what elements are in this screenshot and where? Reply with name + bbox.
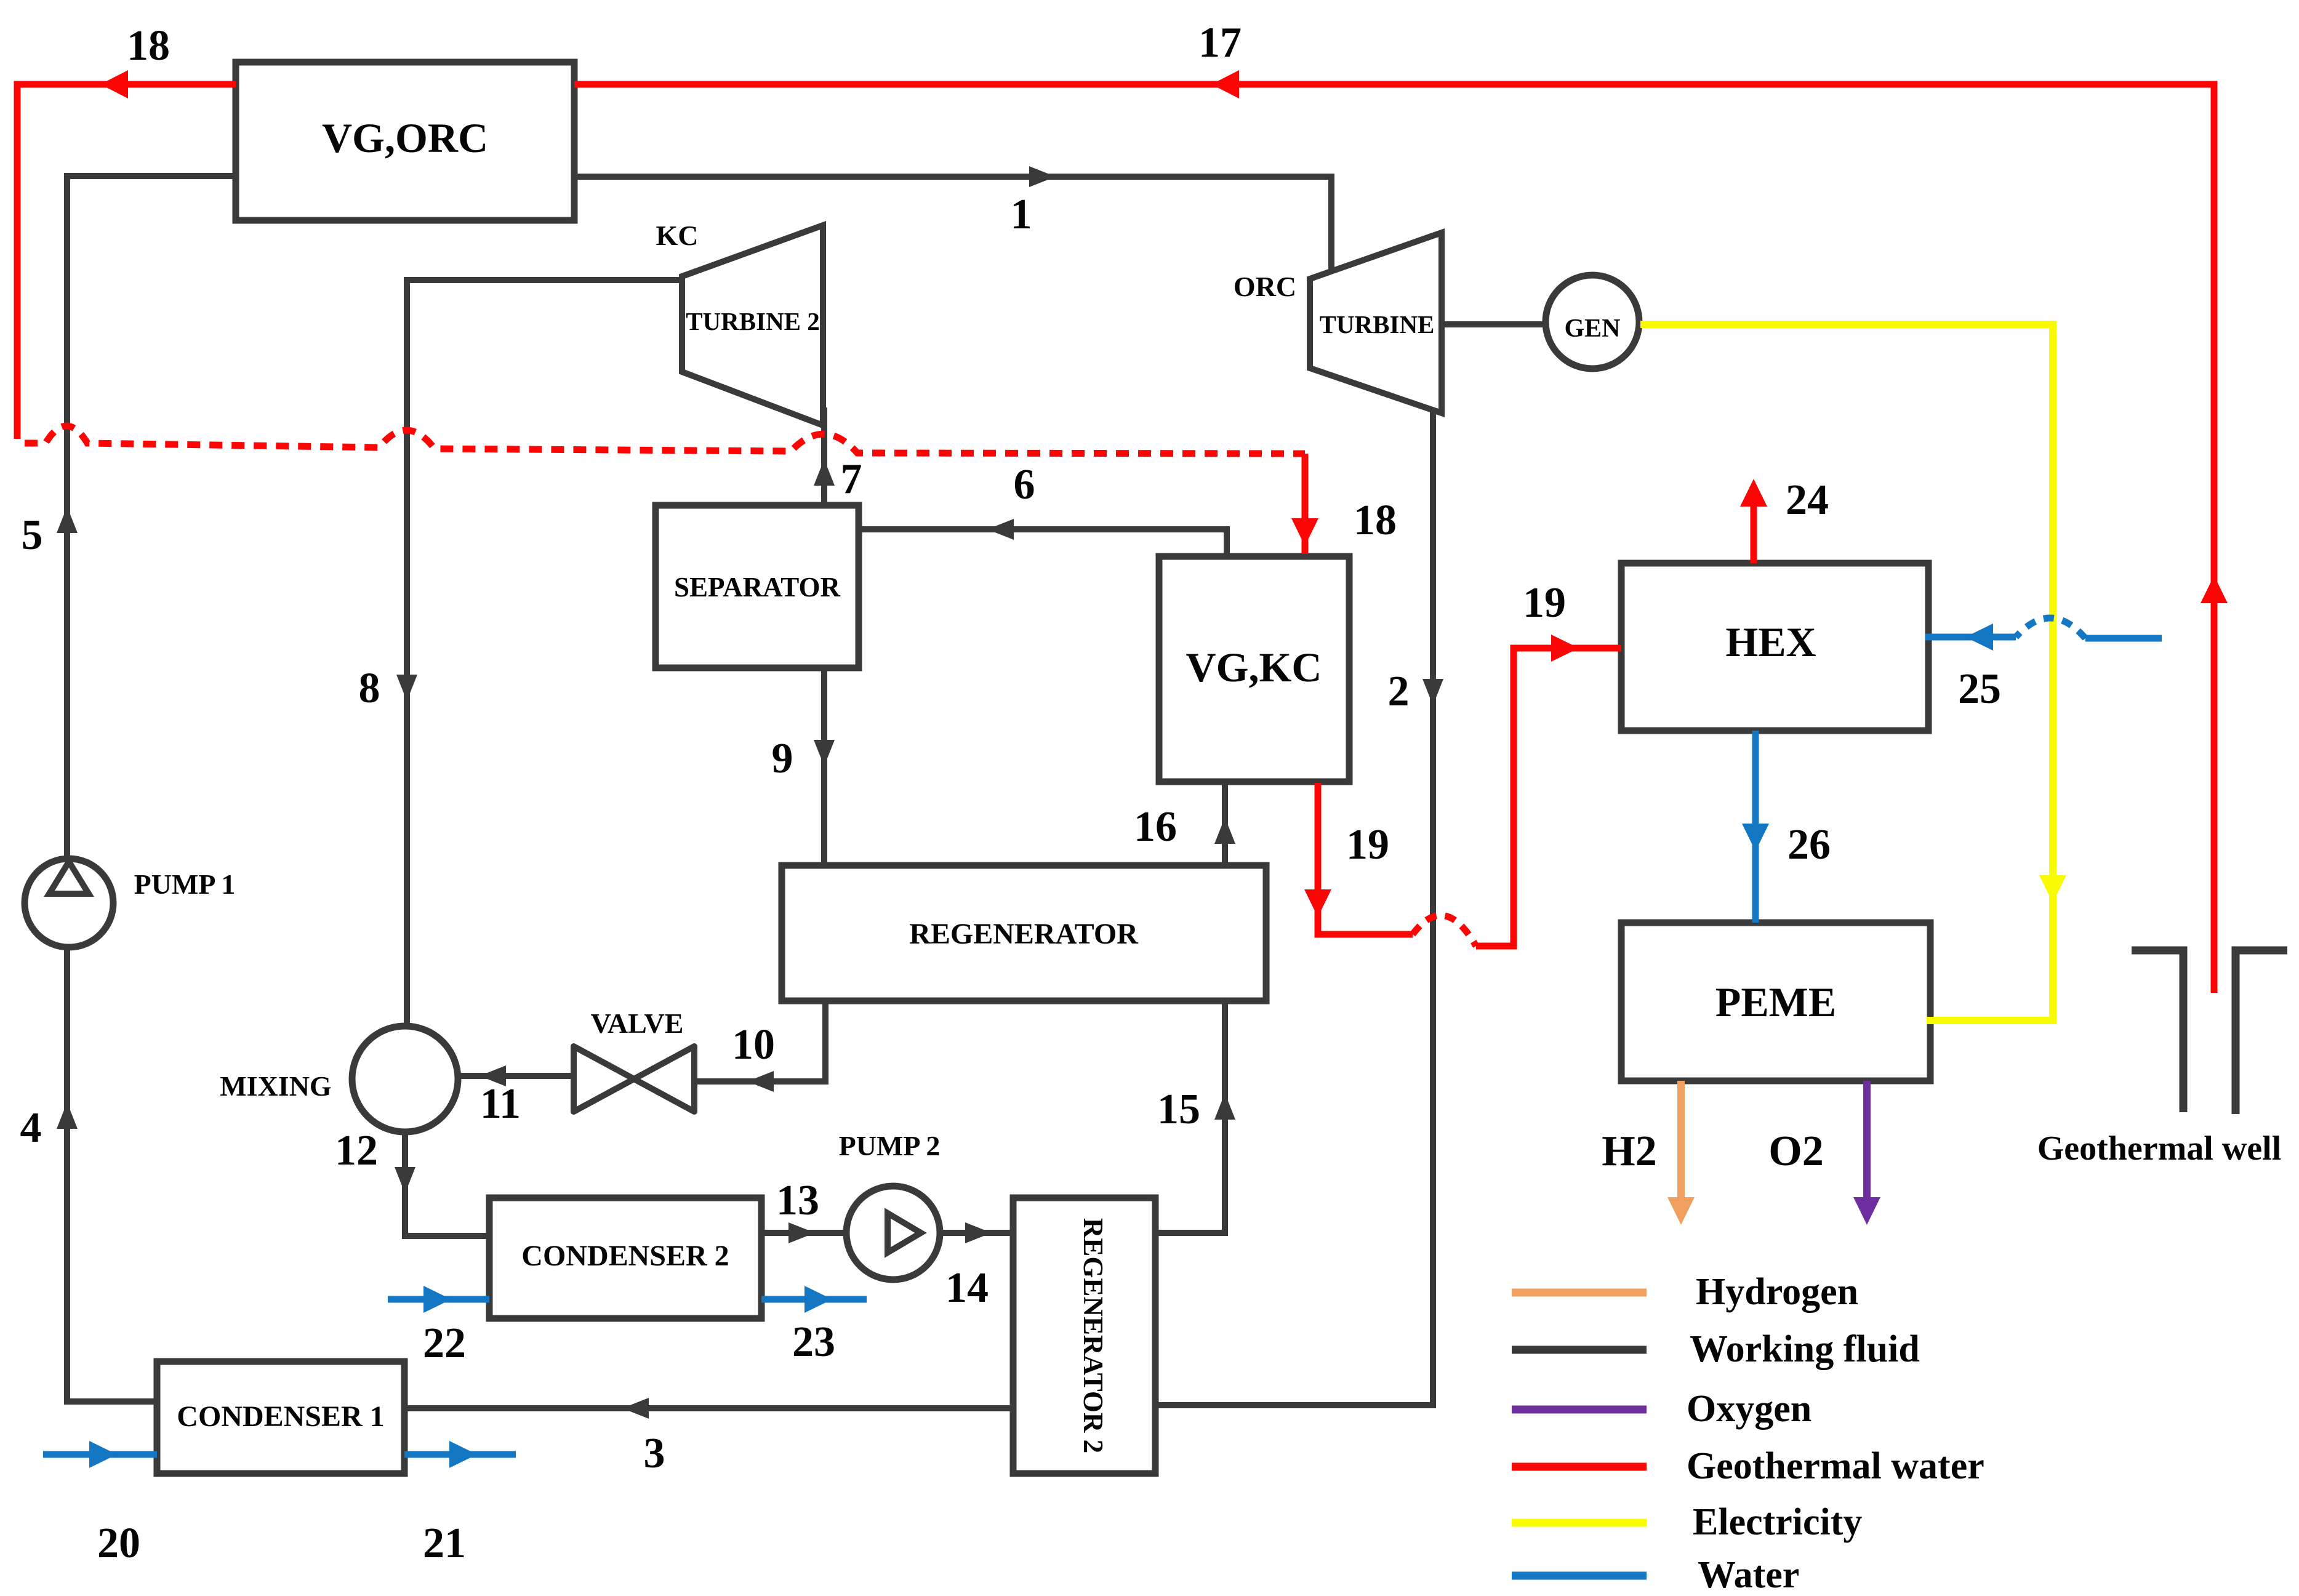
svg-text:VG,KC: VG,KC [1186,644,1322,691]
arrow stream 22 right [423,1286,451,1313]
svg-text:12: 12 [335,1127,378,1174]
legend geothermal water swatch [1512,1463,1647,1471]
svg-text:REGENERATOR: REGENERATOR [909,918,1139,950]
svg-text:O2: O2 [1768,1128,1823,1175]
svg-text:16: 16 [1134,803,1177,851]
svg-text:21: 21 [423,1520,466,1567]
svg-text:3: 3 [644,1430,665,1477]
wire water to HEX right segment (stream 25) [2085,635,2162,642]
arrow wire1 right [1029,166,1056,187]
wire water condenser2 in (stream 22) [388,1296,489,1303]
YELLOW-LINES [1640,324,2053,1021]
svg-text:26: 26 [1787,821,1831,868]
wire 5 : pump 1 up to VG,ORC [67,176,236,859]
wire geothermal into VG,KC (stream 18) [1302,454,1309,554]
legend water swatch [1512,1572,1647,1580]
wire 7 : separator top to turbine 2 [821,407,827,507]
box VG,KC [1159,556,1349,782]
arrow wire8 down [396,675,417,701]
wire oxygen out (O2) [1863,1081,1871,1199]
box CONDENSER 1 [157,1361,404,1474]
wire geothermal to HEX (stream 19) [1476,648,1621,946]
svg-text:14: 14 [945,1264,989,1312]
legend hydrogen swatch [1512,1289,1647,1297]
box VG,ORC [236,62,574,220]
svg-text:22: 22 [423,1320,466,1367]
generator GEN [1546,275,1639,369]
arrow stream 19 right into HEX [1551,635,1579,662]
wire geothermal VG,KC out (stream 19) [1318,783,1413,934]
svg-text:CONDENSER 2: CONDENSER 2 [521,1240,729,1272]
svg-text:15: 15 [1157,1086,1200,1133]
arrow wire13 right [788,1222,815,1243]
box REGENERATOR [782,865,1266,1001]
wire geothermal HEX vent (stream 24) [1751,492,1757,563]
svg-text:H2: H2 [1602,1128,1656,1175]
svg-text:24: 24 [1786,476,1829,524]
arrow wire16 up [1214,817,1235,844]
svg-text:GEN: GEN [1564,315,1620,343]
wire 13 : condenser 2 to pump 2 [761,1230,848,1236]
arrow stream 24 up [1740,479,1767,507]
pump PUMP 1 [25,859,113,947]
svg-text:VG,ORC: VG,ORC [322,114,488,161]
wire 11 : valve to mixing [459,1073,572,1079]
box PEME [1621,923,1930,1081]
wire water condenser1 out (stream 21) [404,1451,516,1458]
legend working fluid swatch [1512,1346,1647,1354]
svg-text:18: 18 [127,22,170,70]
arrow electricity down [2039,875,2066,903]
arrow wire6 left [987,519,1014,540]
svg-text:Hydrogen: Hydrogen [1696,1271,1858,1313]
svg-text:Electricity: Electricity [1693,1501,1862,1543]
arrow wire12 down [395,1167,415,1193]
arrow stream 17 left [1211,70,1239,98]
LEGEND [1512,1293,1647,1576]
wire 6 : VG,KC to separator [860,529,1227,558]
wire water into HEX (stream 25) [1925,634,2016,641]
svg-text:VALVE: VALVE [591,1008,684,1039]
geothermal well symbol [2132,950,2183,1112]
box HEX [1621,563,1928,731]
turbine KC TURBINE 2 [682,225,823,425]
svg-text:17: 17 [1198,19,1242,66]
svg-text:Working fluid: Working fluid [1690,1328,1920,1370]
arrow geothermal well up [2201,575,2228,603]
svg-text:7: 7 [841,455,862,503]
legend oxygen swatch [1512,1406,1647,1414]
svg-text:Water: Water [1698,1554,1799,1596]
wire geothermal break symbol on stream 19 [1413,915,1476,946]
arrow stream 18 left [100,70,128,98]
pump PUMP 2 [846,1186,940,1280]
arrow stream 25 left [1965,624,1993,651]
wire water break symbol on stream 25 [2016,618,2085,638]
wire water condenser2 out (stream 23) [761,1296,867,1303]
wire electricity GEN to PEME [1640,324,2053,1021]
arrow stream 20 right [89,1441,117,1468]
wire 4 : condenser 1 to pump 1 [67,949,157,1402]
wire hydrogen out (H2) [1677,1081,1685,1199]
arrow stream 26 down [1742,824,1769,851]
svg-text:MIXING: MIXING [220,1070,331,1102]
svg-text:KC: KC [656,220,699,251]
svg-text:REGENERATOR 2: REGENERATOR 2 [1078,1218,1109,1453]
arrow wire9 down [814,740,835,766]
arrow wire15 up [1214,1093,1235,1120]
arrow wire11 left [479,1065,506,1086]
wire 14 : pump 2 to regenerator 2 [939,1230,1013,1236]
wire water HEX to PEME (stream 26) [1752,731,1759,923]
box REGENERATOR 2 [1013,1198,1155,1474]
shaft ORC turbine to GEN [1442,321,1547,327]
wire 8 : turbine 2 exhaust to mixing [407,280,681,1028]
svg-text:19: 19 [1346,821,1389,868]
arrow wire7 up [814,459,835,486]
svg-text:9: 9 [772,735,793,782]
svg-text:PUMP 2: PUMP 2 [839,1130,941,1161]
arrow wire2 down [1422,679,1443,705]
turbine ORC TURBINE [1310,233,1442,413]
svg-text:10: 10 [732,1021,775,1069]
arrow wire4 up [57,1102,78,1129]
wire geothermal main : well up and across top (streams 17-18) [574,84,2214,993]
box CONDENSER 2 [489,1198,761,1318]
wire geothermal top-left : VG,ORC exit to left drop [17,84,236,439]
arrow wire3 left [622,1398,649,1419]
wire 9 : separator bottom to regenerator [821,667,827,867]
arrow wire5 up [57,507,78,533]
arrow wire10 left [747,1071,774,1092]
svg-text:SEPARATOR: SEPARATOR [674,572,841,603]
svg-text:ORC: ORC [1234,271,1296,302]
svg-text:HEX: HEX [1725,619,1816,665]
arrow stream 23 right [804,1286,832,1313]
svg-text:TURBINE: TURBINE [1320,310,1435,339]
svg-text:Oxygen: Oxygen [1687,1388,1812,1430]
svg-text:2: 2 [1388,668,1410,715]
BLUE-LINES [43,618,2162,1454]
arrow wire14 right [965,1222,992,1243]
wire 16 : regenerator up to VG,KC [1222,783,1228,864]
svg-text:19: 19 [1523,579,1566,627]
svg-text:PEME: PEME [1715,979,1836,1025]
wire 15 : regenerator 2 up to regenerator [1155,1002,1225,1233]
svg-text:Geothermal water: Geothermal water [1687,1445,1984,1487]
svg-text:8: 8 [359,665,380,712]
wire geothermal dashed return across (stream 18) [25,426,1305,454]
wire 1 : VG,ORC to ORC turbine [574,177,1331,277]
svg-text:4: 4 [20,1104,42,1152]
valve VALVE [574,1046,634,1112]
svg-text:Geothermal well: Geothermal well [2037,1129,2282,1168]
wire water condenser1 in (stream 20) [43,1451,157,1458]
svg-text:1: 1 [1011,191,1032,238]
svg-text:25: 25 [1958,665,2001,713]
arrow stream 18 down into VG,KC [1291,518,1318,546]
svg-text:6: 6 [1014,461,1035,508]
svg-text:5: 5 [22,511,43,559]
wire 3 : regenerator2 to condenser 1 [404,1405,1013,1411]
legend electricity swatch [1512,1519,1647,1527]
svg-text:13: 13 [776,1177,819,1224]
svg-text:18: 18 [1354,497,1397,544]
arrow stream 19 down [1304,889,1331,917]
svg-text:CONDENSER 1: CONDENSER 1 [177,1400,384,1433]
svg-text:TURBINE 2: TURBINE 2 [686,307,820,335]
svg-text:PUMP 1: PUMP 1 [134,868,236,900]
box SEPARATOR [656,505,859,668]
svg-text:11: 11 [480,1080,521,1128]
wire 12 : mixing down to condenser 2 [405,1133,489,1236]
svg-text:20: 20 [97,1520,140,1567]
mixing chamber MIXING [352,1026,458,1132]
wire 2 : ORC turbine outlet down to bottom corner [1157,409,1433,1405]
arrow stream 21 right [449,1441,477,1468]
wire 10 : regenerator to valve [696,1000,825,1081]
svg-text:23: 23 [792,1318,835,1366]
